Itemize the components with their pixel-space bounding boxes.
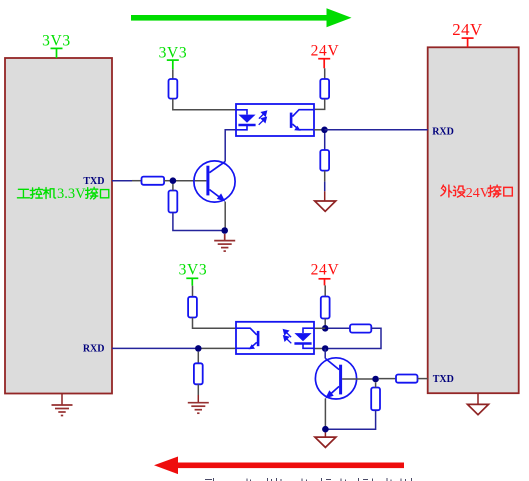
wire node E to Q2 collector: [324, 349, 326, 359]
resistor R5: [320, 150, 329, 171]
wire node C down to R7: [197, 352, 199, 364]
wire Q1 emitter down to ground node: [224, 202, 226, 231]
wire node F to R11: [379, 378, 396, 380]
right interface box (peripheral 24V): [428, 47, 519, 393]
resistor R2: [320, 79, 329, 99]
resistor R7: [194, 363, 203, 384]
optocoupler U2 LED: [294, 328, 314, 348]
resistor R6: [188, 297, 197, 318]
power port 24V (top circuit): [318, 59, 330, 69]
resistor R8: [321, 297, 330, 319]
label 工控机3.3V接口 (left box, green): [17, 187, 108, 199]
node B junction: [321, 127, 328, 134]
svg-text:RXD: RXD: [432, 126, 454, 137]
wire R3 to node A: [164, 180, 173, 182]
ground (triangle) top circuit: [315, 201, 336, 211]
svg-text:3V3: 3V3: [42, 32, 71, 49]
power port 24V above right box: [462, 38, 474, 47]
svg-text:TXD: TXD: [433, 374, 454, 385]
wire node F to R10: [375, 382, 377, 387]
wire 3V3 to R6: [192, 286, 194, 297]
wire opto U2 cathode to node E: [314, 348, 325, 350]
wire R9 around to node E: [329, 328, 382, 348]
node C junction: [195, 345, 202, 352]
left interface box (industrial PC 3.3V): [5, 58, 112, 394]
pin stub to R3: [132, 180, 142, 182]
red arrow (bottom, data flow left): [154, 457, 404, 475]
ground (triangle) bottom circuit: [315, 437, 336, 447]
wire Q2 emitter down: [324, 399, 326, 430]
node F junction: [372, 376, 379, 383]
wire 24V to R2: [324, 68, 326, 79]
optocoupler U1 body: [236, 104, 314, 136]
ground (triangle) right box: [468, 404, 489, 414]
node G junction: [322, 426, 329, 433]
optocoupler U2 body: [236, 322, 314, 354]
transistor Q1 (NPN): [194, 161, 235, 202]
wire R8 to node D: [324, 319, 326, 329]
resistor R10 (base-emitter): [371, 388, 380, 411]
cut-off caption text tops at bottom edge: [205, 478, 412, 481]
node E junction: [322, 345, 329, 352]
ground (multibar) under Q1 emitter: [214, 234, 235, 251]
optocoupler U1 phototransistor: [290, 110, 314, 131]
svg-text:24V: 24V: [452, 20, 482, 39]
svg-text:24V: 24V: [466, 186, 490, 201]
wire node A to R4: [172, 184, 174, 191]
svg-text:24V: 24V: [311, 42, 340, 59]
resistor R9 (parallel with LED): [350, 324, 371, 332]
wire R6 to opto U2 collector: [193, 318, 237, 329]
power port 3V3 above left box: [51, 48, 63, 58]
resistor R4 (pull-down at Q1 base): [169, 191, 178, 213]
ground (multibar) bottom pulldown: [188, 403, 209, 414]
optocoupler U1 LED: [236, 110, 256, 130]
svg-text:3.3V: 3.3V: [57, 186, 86, 202]
node D junction: [322, 325, 329, 332]
wire right box to ground: [477, 393, 479, 404]
resistor R3: [142, 177, 165, 185]
wire node C to opto U2 emitter: [198, 347, 236, 349]
svg-text:RXD: RXD: [83, 344, 105, 355]
svg-text:TXD: TXD: [83, 176, 104, 187]
label 外设24V接口 (right box, red): [441, 185, 512, 197]
wire R7 to ground: [197, 384, 199, 402]
wire node B down to R5: [324, 133, 326, 150]
wire R11 to right box TXD: [418, 378, 428, 380]
wire R2 to opto U1 collector pin: [314, 99, 325, 110]
wire R1 to opto U1 anode: [173, 99, 236, 110]
svg-text:3V3: 3V3: [179, 261, 208, 278]
svg-text:3V3: 3V3: [159, 44, 188, 61]
wire R5 to ground: [324, 171, 326, 201]
node Q1 emitter junction: [221, 227, 228, 234]
wire Q2 base to node F: [342, 378, 376, 380]
svg-text:24V: 24V: [311, 262, 340, 279]
wire node A to Q1 base: [173, 180, 207, 182]
wire Q1 collector to opto U1 cathode: [225, 130, 236, 162]
optocoupler U1 light arrows: [259, 111, 267, 125]
wire 24V to R8: [324, 285, 326, 296]
power port 3V3 (bottom circuit): [186, 278, 198, 285]
ground (multibar) under left box: [52, 405, 73, 416]
green arrow (top, data flow right): [131, 8, 352, 27]
power port 24V (bottom circuit): [319, 279, 331, 286]
wire node B to right box RXD: [325, 129, 428, 131]
wire node D to R9: [329, 327, 351, 329]
power port 3V3 (top circuit): [167, 60, 179, 69]
optocoupler U2 phototransistor: [236, 328, 259, 349]
wire node D to opto U2 anode: [314, 327, 325, 329]
pin RXD wire from left box (bottom circuit): [112, 347, 198, 349]
wire R4 to emitter rail: [173, 213, 225, 231]
wire 3V3 to R1: [172, 69, 174, 79]
transistor Q2 (NPN, mirrored): [315, 358, 356, 399]
wire R10 to Q2 emitter rail: [325, 410, 375, 429]
wire opto U1 emitter to node B: [314, 129, 325, 131]
resistor R11: [396, 375, 418, 383]
node A junction: [170, 177, 177, 184]
wire node G to ground: [324, 433, 326, 437]
resistor R1: [169, 79, 178, 99]
pin TXD wire from left box: [112, 180, 132, 182]
wire left box to ground: [61, 394, 63, 405]
optocoupler U2 light arrows: [284, 330, 292, 344]
